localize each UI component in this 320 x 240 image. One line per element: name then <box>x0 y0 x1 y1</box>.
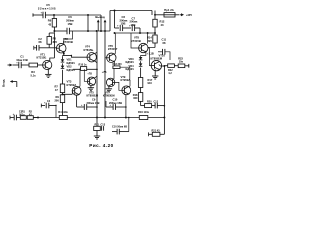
resistor R6 label <box>48 18 52 26</box>
resistor R23 label <box>178 56 183 63</box>
capacitor C11 label <box>162 37 167 44</box>
svg-text:КТ805БМ: КТ805БМ <box>103 94 115 98</box>
svg-text:+1,1В: +1,1В <box>147 53 154 56</box>
wire top rail <box>53 14 101 16</box>
svg-text:R12: R12 <box>160 19 165 23</box>
wire VT3 collector <box>79 69 80 87</box>
wire VT5 collector <box>94 76 97 78</box>
svg-text:КД521: КД521 <box>126 60 135 64</box>
wire VT2 collector <box>64 31 73 45</box>
capacitor C9 label <box>87 98 100 105</box>
resistor R13 box <box>113 66 120 69</box>
resistor R1 label <box>22 111 26 117</box>
svg-text:43: 43 <box>161 23 164 27</box>
svg-text:КТ815Б: КТ815Б <box>84 48 94 52</box>
capacitor C3 <box>10 113 20 120</box>
wire center bus down <box>104 31 106 118</box>
transistor VT7 <box>106 78 114 86</box>
transistor VT10 <box>151 60 161 70</box>
transistor VT2 <box>56 43 66 53</box>
resistor R14 label <box>147 36 152 43</box>
wire VT8 collector <box>146 33 149 49</box>
transistor VT9 <box>122 86 131 95</box>
svg-text:+7В: +7В <box>102 71 107 74</box>
ground R11 <box>94 133 100 139</box>
diode VD1 <box>61 57 65 62</box>
resistor R3 label <box>30 70 36 78</box>
svg-text:C1: C1 <box>20 55 24 59</box>
resistor R4 <box>59 116 67 120</box>
resistor R22 label <box>168 69 173 75</box>
capacitor C11 <box>155 48 170 61</box>
capacitor C6 filter label <box>120 15 128 25</box>
resistor R16 label <box>138 110 150 114</box>
svg-text:10мк 15В: 10мк 15В <box>16 58 28 62</box>
wire driver node <box>73 69 97 70</box>
transistor VT3 <box>72 86 81 95</box>
svg-text:+ИП: +ИП <box>186 13 192 17</box>
transistor VT3 label <box>67 80 77 87</box>
resistor R2 label <box>29 111 33 117</box>
capacitor C10 <box>106 101 126 110</box>
svg-text:R7: R7 <box>54 84 58 88</box>
svg-text:R3: R3 <box>31 70 35 74</box>
label +1,1В <box>147 53 154 56</box>
capacitor C1 <box>13 62 30 69</box>
input ground stub <box>10 80 17 87</box>
diode VD2 label <box>67 65 76 72</box>
diode VD4 <box>139 61 143 77</box>
svg-text:200мк: 200мк <box>66 19 74 23</box>
svg-text:68: 68 <box>39 40 42 44</box>
resistor R6 <box>52 15 56 31</box>
svg-text:+7В: +7В <box>87 73 92 76</box>
ground VT7 emitter <box>106 86 112 92</box>
svg-text:КТ315Г: КТ315Г <box>108 47 118 51</box>
wire VT9 collector <box>129 80 130 87</box>
wire VT7 collector <box>112 69 115 80</box>
fuse Пр1 <box>155 13 180 17</box>
resistor R9 <box>60 91 72 118</box>
wire VT8 base <box>131 33 139 48</box>
capacitor C10 label <box>109 98 122 105</box>
resistor R3 <box>29 63 43 67</box>
svg-text:5,1к: 5,1к <box>30 74 36 78</box>
wire VT9 base <box>0 0 1 1</box>
resistor R17 label <box>148 78 153 85</box>
diode VD2 <box>61 63 65 84</box>
resistor R23 <box>178 64 189 68</box>
transistor VT8 <box>139 43 148 52</box>
svg-text:КТ805БМ: КТ805БМ <box>151 56 163 60</box>
svg-text:Вход: Вход <box>2 79 6 87</box>
svg-text:C10 50мк 6В: C10 50мк 6В <box>112 125 127 128</box>
svg-text:КТ315Б: КТ315Б <box>37 56 47 60</box>
svg-text:Выход: Выход <box>95 15 105 19</box>
transistor VT4 <box>87 53 96 62</box>
wire VT7 base to VT9 <box>115 82 122 90</box>
transistor VT7 label <box>103 90 115 97</box>
capacitor C4 <box>41 101 56 117</box>
svg-text:КТ209А: КТ209А <box>121 78 131 82</box>
svg-text:КТ315В: КТ315В <box>131 39 141 43</box>
capacitor C2 coupling <box>34 45 49 51</box>
resistor R8 label <box>53 37 58 44</box>
resistor R9 label <box>54 95 59 102</box>
capacitor C7 filter label <box>130 16 138 26</box>
wire VT6 emitter <box>113 61 116 66</box>
wire R20 down <box>163 105 165 118</box>
svg-text:R20: R20 <box>147 100 152 103</box>
resistor R21 label <box>152 129 161 132</box>
label +7В right <box>102 71 107 74</box>
svg-text:КТ315В: КТ315В <box>63 40 73 44</box>
resistor R11 <box>94 118 104 134</box>
svg-text:Рис. 4.20: Рис. 4.20 <box>89 143 113 148</box>
capacitor C14 label <box>112 125 127 128</box>
transistor VT1 <box>43 60 52 69</box>
svg-text:R6: R6 <box>48 18 52 22</box>
wire mid supply bus <box>114 28 155 34</box>
capacitor C6 filter <box>115 11 123 32</box>
resistor R8 <box>47 33 56 48</box>
svg-text:R8: R8 <box>53 37 57 41</box>
transistor VT5 <box>87 77 95 85</box>
resistor R12 <box>153 19 157 35</box>
capacitor C9 <box>77 95 97 110</box>
resistor R18 <box>138 93 142 106</box>
wire rail to R16 <box>140 117 148 119</box>
output terminal arrow 2 <box>104 20 107 32</box>
wire VT10 base <box>148 48 155 66</box>
resistor R1 <box>20 116 26 120</box>
svg-text:C6: C6 <box>68 15 72 19</box>
resistor R21 <box>149 118 165 137</box>
wire VT4 base <box>71 55 87 57</box>
svg-text:КД521: КД521 <box>67 68 76 72</box>
wire VT9 emitter <box>125 95 127 107</box>
wire bottom rail <box>34 106 141 118</box>
svg-text:43: 43 <box>48 23 51 27</box>
svg-text:820: 820 <box>147 39 152 43</box>
resistor R7 <box>60 84 64 96</box>
transistor VT4 label <box>84 45 94 52</box>
resistor R16 <box>139 116 164 120</box>
label Выход <box>95 15 105 19</box>
wire R13 to VT9 <box>120 67 130 80</box>
label Вход <box>2 79 6 87</box>
label +7В small <box>87 73 92 76</box>
svg-text:КТ805БМ: КТ805БМ <box>87 94 99 98</box>
ground VT5 emitter <box>88 85 94 91</box>
resistor R7 label <box>54 84 58 91</box>
supply terminal arrow <box>180 13 192 17</box>
capacitor C4 label <box>47 100 51 103</box>
output terminal arrow 1 <box>97 20 100 32</box>
transistor VT9 label <box>121 75 131 82</box>
svg-text:910: 910 <box>148 81 153 85</box>
svg-text:Пр1 2А: Пр1 2А <box>164 8 174 12</box>
svg-text:R9: R9 <box>55 95 59 99</box>
wire R8 top <box>49 31 54 33</box>
svg-text:R16 110к: R16 110к <box>138 110 150 114</box>
transistor VT5 label <box>87 90 99 97</box>
transistor VT6 <box>107 53 116 62</box>
wire VT4 riser <box>96 31 98 118</box>
svg-text:C11: C11 <box>162 37 167 41</box>
svg-text:R4 110к: R4 110к <box>58 110 68 114</box>
resistor R10 box <box>81 67 87 71</box>
transistor VT1 label <box>37 52 47 59</box>
capacitor C3 label <box>19 111 23 117</box>
input terminal arrow <box>8 64 13 67</box>
capacitor C5 label <box>38 3 56 10</box>
resistor R18 label <box>133 93 138 100</box>
caption <box>89 143 113 148</box>
capacitor C7 filter <box>123 24 140 33</box>
svg-text:C10: C10 <box>113 98 118 102</box>
capacitor C14 <box>112 117 130 135</box>
resistor R14 <box>153 35 157 48</box>
wire VT2 emitter <box>63 52 72 57</box>
transistor VT10 label <box>151 53 166 60</box>
svg-text:КТ209А: КТ209А <box>67 83 77 87</box>
svg-text:10к: 10к <box>179 59 184 63</box>
svg-text:С13: С13 <box>101 123 106 126</box>
resistor R12 label <box>160 19 165 27</box>
capacitor C1 label <box>16 55 28 62</box>
resistor R17 <box>138 78 142 93</box>
transistor VT6 label <box>108 44 118 51</box>
diode VD3 label <box>126 57 135 64</box>
svg-text:С12: С12 <box>154 100 159 103</box>
wire VT6 collector <box>114 33 115 54</box>
svg-text:820: 820 <box>53 40 58 44</box>
wire right supply top <box>110 10 152 31</box>
resistor R22 <box>164 64 178 68</box>
wire VT4 collector <box>94 52 97 54</box>
capacitor C2 label <box>38 37 42 44</box>
wire R12 column <box>154 11 156 34</box>
svg-text:200мк 15В: 200мк 15В <box>87 101 100 105</box>
resistor R13 label <box>113 63 123 66</box>
diode VD4 label <box>126 64 135 71</box>
diode VD3 <box>139 55 143 60</box>
wire VT6 base <box>105 57 107 59</box>
ground VT1 emitter <box>45 69 51 77</box>
wire VT5 base <box>84 69 87 81</box>
label R10 1к <box>79 64 88 67</box>
resistor R2 <box>26 116 38 120</box>
capacitor C6 label <box>66 15 74 26</box>
wire rail corner x101 <box>100 15 102 31</box>
transistor VT8 label <box>131 36 141 43</box>
svg-text:15В: 15В <box>68 22 73 26</box>
ground VT10 emitter <box>152 70 158 80</box>
resistor R11 label <box>95 123 106 126</box>
svg-text:C9: C9 <box>92 98 96 102</box>
wire VT4 emitter <box>94 61 97 63</box>
svg-text:4,2: 4,2 <box>168 72 172 75</box>
svg-text:22мк×15В: 22мк×15В <box>38 7 56 11</box>
wire VT1 collector <box>50 31 55 61</box>
svg-text:300: 300 <box>133 96 138 100</box>
svg-text:КД521: КД521 <box>67 61 76 65</box>
fuse Пр1 label <box>164 8 174 12</box>
resistor R4 label <box>58 110 68 114</box>
diode VD1 label <box>67 58 76 65</box>
wire rail drop x88 <box>87 15 89 31</box>
capacitor C6 bootstrap <box>53 28 110 34</box>
wire VT8 emitter <box>141 51 146 55</box>
transistor VT2 label <box>63 37 73 44</box>
svg-text:200: 200 <box>54 99 59 103</box>
capacitor C12 cluster <box>141 100 165 108</box>
wire VT10 collector <box>159 65 166 106</box>
capacitor C5 <box>33 11 54 18</box>
